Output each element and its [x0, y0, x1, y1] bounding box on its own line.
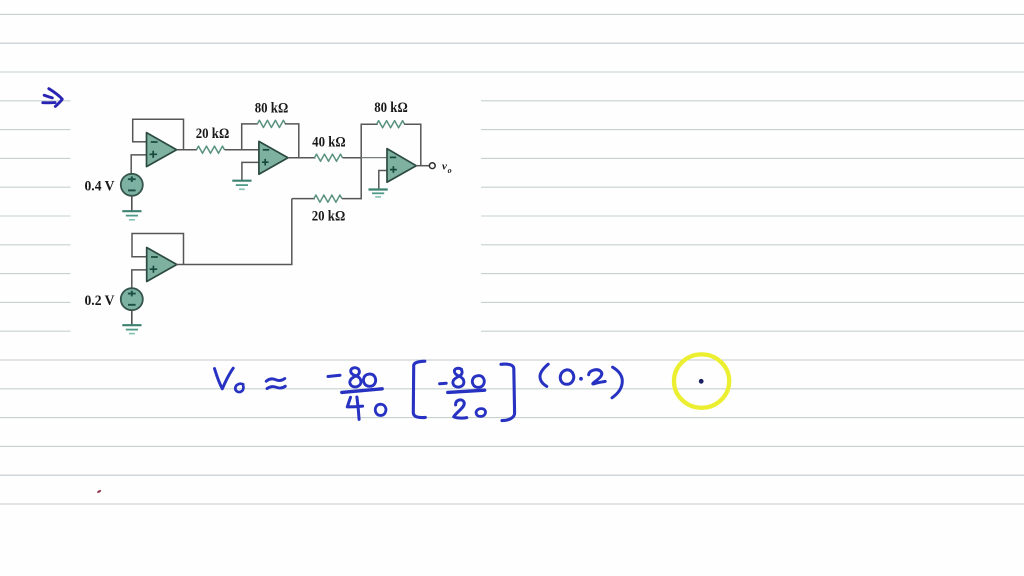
- wire U4 feedback loop: [132, 234, 184, 265]
- wire U3 inverting input: [361, 157, 387, 159]
- svg-text:v: v: [442, 160, 447, 172]
- wire R5 to summing node: [342, 198, 362, 200]
- wire U2 output: [288, 157, 316, 159]
- wire R3 to summing node: [343, 157, 362, 159]
- U1 plus pin: [150, 151, 158, 158]
- handwritten V_o: [215, 368, 234, 389]
- handwritten approx sign: [266, 379, 285, 382]
- svg-text:80 kΩ: 80 kΩ: [255, 101, 289, 117]
- svg-text:o: o: [448, 166, 452, 175]
- U4 minus pin: [151, 256, 158, 258]
- U3 plus pin: [390, 166, 397, 173]
- source V1: [121, 174, 143, 196]
- svg-text:0.2 V: 0.2 V: [85, 293, 115, 309]
- wire U1 inverting input: [132, 141, 147, 143]
- wire U3 output: [416, 165, 429, 167]
- node summing riser: [360, 124, 362, 199]
- wire V1 to ground: [131, 196, 133, 211]
- wire U1 output: [176, 149, 197, 151]
- fraction -80/40: [328, 375, 340, 376]
- op-amp U2: [259, 141, 288, 174]
- svg-text:20 kΩ: 20 kΩ: [196, 126, 230, 142]
- svg-text:0.4 V: 0.4 V: [85, 178, 115, 194]
- yellow highlight circle: [674, 354, 729, 407]
- ground under U2 plus: [232, 181, 251, 190]
- wire R2 to right riser: [285, 124, 299, 158]
- fraction -80/20: [440, 382, 447, 386]
- source V2: [121, 288, 143, 310]
- op-amp U3: [387, 149, 416, 183]
- U2 plus pin: [262, 159, 269, 166]
- wire U3 non-inverting input + riser: [379, 171, 388, 190]
- wire U4 output to 20k branch: [176, 199, 291, 265]
- U4 plus pin: [150, 266, 158, 273]
- blue dot inside highlight: [699, 379, 704, 384]
- wire U3 feedback top: [361, 123, 378, 125]
- wire bottom 20k branch: [292, 198, 315, 200]
- op-amp U4: [147, 248, 177, 282]
- wire U2 non-inverting input + riser: [242, 162, 260, 180]
- (0.2): [540, 364, 548, 386]
- ground under U3 plus: [369, 190, 388, 197]
- U3 minus pin: [390, 156, 396, 158]
- resistor R5 20 kOhm: [314, 195, 342, 202]
- small red mark: [98, 491, 101, 493]
- svg-text:80 kΩ: 80 kΩ: [374, 100, 408, 116]
- wire V2 to ground: [131, 310, 133, 325]
- resistor R3 40 kOhm: [315, 154, 343, 161]
- wire U2 feedback left riser: [241, 124, 243, 150]
- wire U1 non-inverting input: [131, 155, 147, 174]
- wire R1 to U2: [225, 149, 260, 151]
- U2 minus pin: [263, 149, 269, 151]
- output terminal: [429, 163, 435, 169]
- blue arrow annotation: [43, 89, 63, 107]
- ground under V2: [122, 325, 141, 333]
- resistor R1 20 kOhm: [197, 146, 225, 153]
- left square bracket: [413, 361, 425, 417]
- wire U4 inverting input: [131, 256, 147, 258]
- resistor R2 80 kOhm: [257, 120, 285, 127]
- op-amp U1: [147, 133, 177, 167]
- svg-text:40 kΩ: 40 kΩ: [312, 134, 346, 150]
- svg-text:20 kΩ: 20 kΩ: [312, 208, 346, 224]
- wire U2 feedback top: [241, 123, 258, 125]
- wire U4 non-inverting input: [132, 270, 147, 288]
- U1 minus pin: [151, 141, 158, 143]
- resistor R4 80 kOhm: [377, 121, 405, 128]
- wire R4 to right riser down to output: [404, 124, 421, 166]
- circuit image white background: [71, 84, 482, 349]
- right square bracket: [501, 364, 515, 421]
- ground under V1: [122, 211, 141, 220]
- wire U1 feedback loop: [133, 119, 184, 149]
